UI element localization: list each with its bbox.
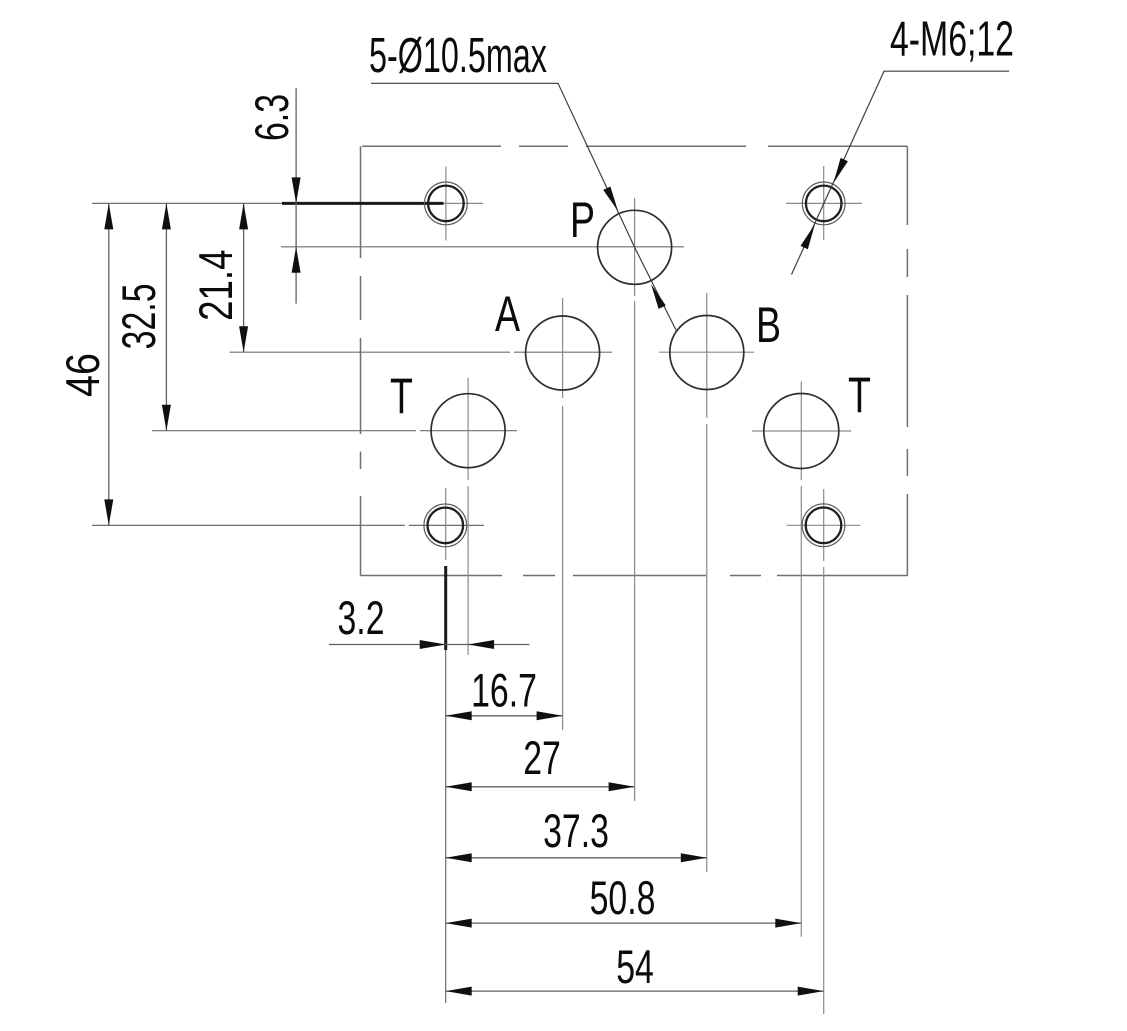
- plate outline top edge (chain line): [362, 145, 907, 147]
- dimension 3.2 arrow left: [468, 640, 494, 649]
- leader arrow lower at P: [651, 284, 666, 309]
- dimension 21.4 line: [243, 203, 245, 352]
- port hole T right: [764, 394, 839, 469]
- bottom-left hole extension thin lower: [445, 650, 447, 1003]
- svg-text:37.3: 37.3: [543, 805, 609, 858]
- plate outline bottom edge (chain line): [361, 575, 908, 577]
- dimension 50.8 line: [446, 922, 802, 924]
- mounting hole top-left outer: [425, 182, 468, 225]
- leader arrow lower at top-right hole: [801, 224, 816, 249]
- top-left hole crosshair horizontal tail: [444, 202, 484, 204]
- port hole T left: [431, 394, 505, 468]
- P centre line vertical: [634, 198, 636, 801]
- dimension 16.7 line: [446, 715, 563, 717]
- dimension 32.5 arrow down: [162, 405, 171, 431]
- svg-text:5-Ø10.5max: 5-Ø10.5max: [369, 27, 547, 82]
- dimension 46 arrow down: [104, 499, 113, 525]
- reference line y=246.8 (P centre line): [281, 246, 684, 248]
- svg-text:P: P: [570, 193, 595, 248]
- reference line y=430.7 (T centre line): [152, 430, 517, 432]
- plate outline right edge (chain line): [906, 146, 908, 576]
- reference line y=525.4 (bottom holes centre line): [92, 524, 484, 526]
- dimension 32.5 line: [165, 203, 167, 430]
- top-right hole crosshair horizontal: [786, 202, 862, 204]
- dimension 27 line: [446, 786, 635, 788]
- port hole P: [598, 210, 672, 284]
- dimension 3.2 arrow right: [420, 640, 446, 649]
- port hole B: [670, 316, 744, 390]
- mounting hole top-right outer: [802, 182, 845, 225]
- left T centre line vertical: [467, 378, 469, 655]
- bottom-right hole centre line vertical: [823, 489, 825, 1014]
- svg-text:T: T: [390, 369, 413, 424]
- leader line 5-Ø10.5max: [371, 83, 677, 331]
- svg-text:46: 46: [58, 353, 110, 397]
- dimension 37.3 arrow left: [446, 853, 472, 862]
- mounting hole bottom-right inner: [806, 508, 842, 544]
- right T centre line vertical: [800, 382, 802, 937]
- reference line y=352.2 (A centre line): [230, 351, 612, 353]
- bottom-left hole centre line vertical thin: [445, 488, 447, 560]
- top-right hole crosshair vertical: [823, 166, 825, 240]
- svg-text:50.8: 50.8: [590, 872, 656, 925]
- dimension 46 line: [108, 203, 110, 525]
- svg-text:27: 27: [523, 732, 561, 785]
- dimension 37.3 line: [446, 857, 707, 859]
- dimension 50.8 arrow left: [446, 919, 472, 928]
- leader arrow upper at P: [603, 187, 618, 212]
- leader arrow upper at top-right hole: [834, 158, 848, 183]
- port hole A: [526, 316, 600, 390]
- bottom-left hole extension thick segment: [444, 566, 447, 650]
- dimension 27 arrow right: [609, 782, 635, 791]
- dimension 16.7 arrow right: [537, 711, 563, 720]
- bottom-right hole crosshair horizontal: [787, 524, 861, 526]
- dimension 37.3 arrow right: [681, 853, 707, 862]
- mounting hole top-right inner: [806, 186, 842, 222]
- dimension 32.5 arrow up: [162, 203, 171, 229]
- dimension 6.3 line: [295, 88, 297, 304]
- dimension 27 arrow left: [446, 782, 472, 791]
- dimension 16.7 arrow left: [446, 711, 472, 720]
- reference line y=203.4 thin left part: [92, 202, 282, 204]
- dimension 54 line: [446, 990, 824, 992]
- svg-text:6.3: 6.3: [246, 94, 299, 141]
- dimension 54 arrow left: [446, 987, 472, 996]
- svg-text:A: A: [495, 287, 520, 342]
- A centre line vertical: [562, 298, 564, 730]
- B centre line vertical: [706, 293, 708, 872]
- mounting hole bottom-left outer: [424, 504, 467, 547]
- svg-text:4-M6;12: 4-M6;12: [890, 11, 1014, 66]
- mounting hole top-left inner: [428, 186, 464, 222]
- dimension 3.2 line: [329, 644, 529, 646]
- mounting hole bottom-left inner: [428, 508, 464, 544]
- B hole crosshair horizontal: [659, 351, 754, 353]
- dimension 6.3 arrow down: [292, 177, 301, 203]
- svg-text:16.7: 16.7: [471, 664, 537, 717]
- dimension 6.3 arrow up: [292, 247, 301, 273]
- leader line 4-M6;12: [792, 71, 1010, 274]
- svg-text:T: T: [848, 368, 871, 423]
- svg-text:3.2: 3.2: [337, 592, 384, 645]
- dimension 21.4 arrow down: [239, 326, 248, 352]
- dimension 46 arrow up: [104, 203, 113, 229]
- svg-text:21.4: 21.4: [190, 250, 242, 321]
- svg-text:32.5: 32.5: [113, 283, 166, 349]
- top-left hole crosshair vertical: [445, 167, 447, 241]
- svg-text:54: 54: [616, 941, 654, 994]
- right T hole crosshair horizontal: [752, 430, 851, 432]
- dimension 50.8 arrow right: [775, 919, 801, 928]
- mounting hole bottom-right outer: [802, 504, 845, 547]
- dimension 54 arrow right: [798, 987, 824, 996]
- reference line y=203.4 thick segment: [282, 202, 444, 205]
- svg-text:B: B: [756, 298, 781, 353]
- dimension 21.4 arrow up: [239, 203, 248, 229]
- plate outline left edge (chain line): [360, 146, 362, 575]
